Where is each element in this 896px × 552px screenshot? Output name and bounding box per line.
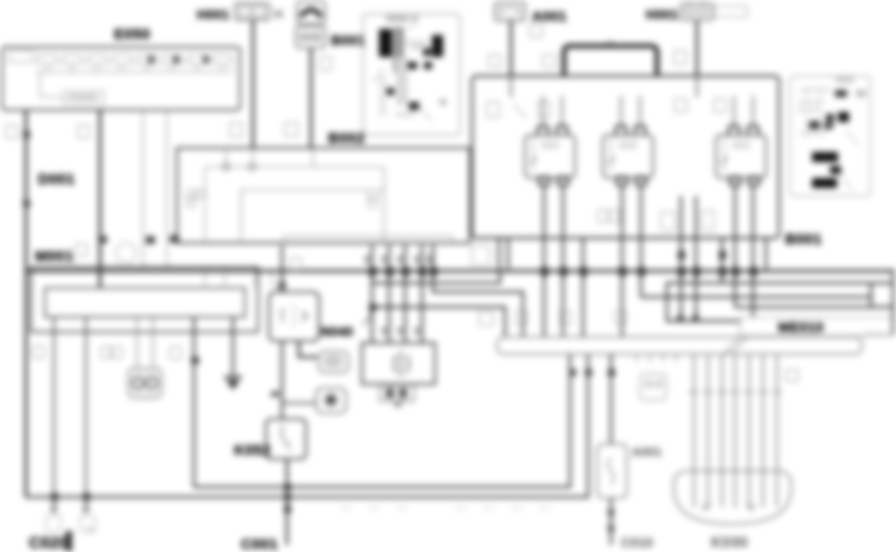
svg-text:H001: H001 [646,7,678,22]
svg-text:C020: C020 [29,535,68,552]
svg-text:E050: E050 [114,26,150,43]
svg-text:B002: B002 [328,130,365,147]
svg-text:C010: C010 [621,535,653,550]
svg-text:B001: B001 [785,231,822,248]
svg-text:M001: M001 [35,248,74,265]
svg-text:C001: C001 [241,536,278,552]
svg-text:A001: A001 [632,445,662,459]
svg-text:A001: A001 [532,8,567,24]
svg-text:H001: H001 [197,7,229,22]
svg-text:ME010: ME010 [778,319,824,335]
svg-text:K030: K030 [711,534,748,551]
svg-text:D001: D001 [38,171,75,188]
svg-text:N040: N040 [321,324,353,339]
svg-text:B001: B001 [331,32,366,48]
